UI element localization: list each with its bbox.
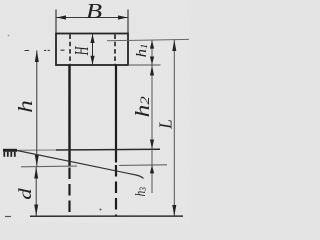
svg-text:H: H	[70, 46, 93, 56]
svg-text:B: B	[86, 0, 103, 23]
svg-text:L: L	[155, 119, 175, 130]
svg-text:d: d	[16, 187, 35, 199]
svg-text:h: h	[14, 100, 36, 113]
